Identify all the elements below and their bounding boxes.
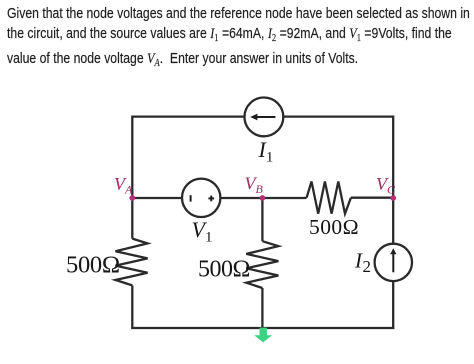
wire top-right horizontal (I1 to top-right corner) bbox=[283, 115, 393, 117]
node C dot bbox=[390, 195, 396, 201]
wire node A to left resistor bbox=[131, 198, 133, 239]
wire top-left horizontal (top-left corner to I1) bbox=[132, 115, 245, 117]
resistor R-left 500ohm zigzag bbox=[116, 239, 148, 286]
I1 arrow (points left) bbox=[250, 114, 275, 121]
svg-text:500Ω: 500Ω bbox=[66, 252, 120, 279]
svg-text:V1: V1 bbox=[192, 217, 213, 246]
current source I1 circle bbox=[245, 98, 284, 137]
wire I2 to bottom-right corner bbox=[392, 281, 394, 329]
wire node B to middle resistor bbox=[261, 198, 263, 241]
svg-text:I2: I2 bbox=[354, 248, 371, 276]
svg-text:500Ω: 500Ω bbox=[309, 215, 359, 239]
svg-text:I1: I1 bbox=[258, 137, 274, 166]
svg-text:VA: VA bbox=[114, 174, 133, 197]
wire V1 to node B bbox=[220, 197, 262, 199]
V1 minus terminal (vertical bar) bbox=[190, 195, 192, 201]
ground symbol (green arrow) bbox=[254, 328, 272, 343]
wire left vertical (top-left corner to node A) bbox=[131, 116, 133, 199]
wire node B to horizontal resistor bbox=[262, 197, 306, 199]
current source I2 circle bbox=[375, 244, 412, 281]
I2 arrow (points up) bbox=[390, 248, 396, 272]
node B dot bbox=[260, 195, 266, 201]
voltage source V1 circle bbox=[182, 179, 220, 217]
resistor R-middle 500ohm zigzag bbox=[246, 241, 278, 288]
wire right vertical (top-right corner to node C) bbox=[392, 116, 394, 199]
V1 plus terminal bbox=[208, 196, 214, 202]
node A dot bbox=[129, 195, 135, 201]
wire bottom horizontal bbox=[131, 327, 394, 329]
resistor R-right 500ohm horizontal zigzag bbox=[307, 182, 351, 214]
wire node C to current source I2 bbox=[392, 198, 394, 244]
wire middle resistor to bottom wire bbox=[261, 288, 263, 329]
svg-text:VB: VB bbox=[245, 173, 264, 196]
wire horizontal resistor to node C bbox=[351, 197, 393, 199]
wire left resistor to bottom-left corner bbox=[131, 285, 133, 329]
question text bbox=[7, 4, 470, 73]
svg-text:500Ω: 500Ω bbox=[198, 256, 250, 282]
wire node A to voltage source V1 bbox=[132, 197, 182, 199]
